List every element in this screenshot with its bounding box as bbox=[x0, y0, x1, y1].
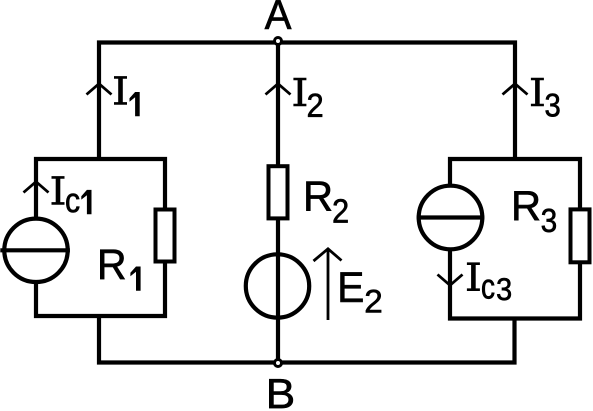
arrow E2 bbox=[314, 249, 342, 320]
label E2 bbox=[341, 272, 382, 312]
wire right loop bbox=[450, 159, 580, 319]
arrow Ic1 bbox=[24, 182, 49, 193]
wire bottom bus B bbox=[99, 314, 515, 363]
node B bbox=[275, 360, 282, 367]
voltage source E2 bbox=[246, 254, 309, 317]
node A label bbox=[265, 0, 292, 29]
resistor R1 bbox=[156, 210, 175, 262]
node A bbox=[275, 38, 282, 45]
current source Ic1 bbox=[0, 219, 70, 282]
label R3 bbox=[514, 191, 556, 232]
label Ic3 bbox=[467, 262, 511, 300]
label R2 bbox=[306, 182, 347, 223]
label I2 bbox=[293, 78, 322, 117]
arrow I3 bbox=[503, 84, 528, 95]
node B label bbox=[269, 379, 293, 408]
wire middle branch bbox=[276, 43, 280, 364]
label Ic1 bbox=[52, 176, 92, 214]
wire left loop bbox=[36, 159, 165, 316]
current source Ic3 bbox=[417, 186, 485, 250]
arrow I2 bbox=[266, 84, 291, 95]
label R1 bbox=[100, 250, 140, 291]
arrow Ic3 bbox=[438, 275, 463, 286]
arrow I1 bbox=[87, 84, 112, 95]
resistor R2 bbox=[269, 166, 288, 218]
resistor R3 bbox=[571, 209, 590, 262]
label I3 bbox=[531, 78, 560, 117]
label I1 bbox=[114, 76, 140, 116]
wire top bus A bbox=[99, 43, 515, 160]
